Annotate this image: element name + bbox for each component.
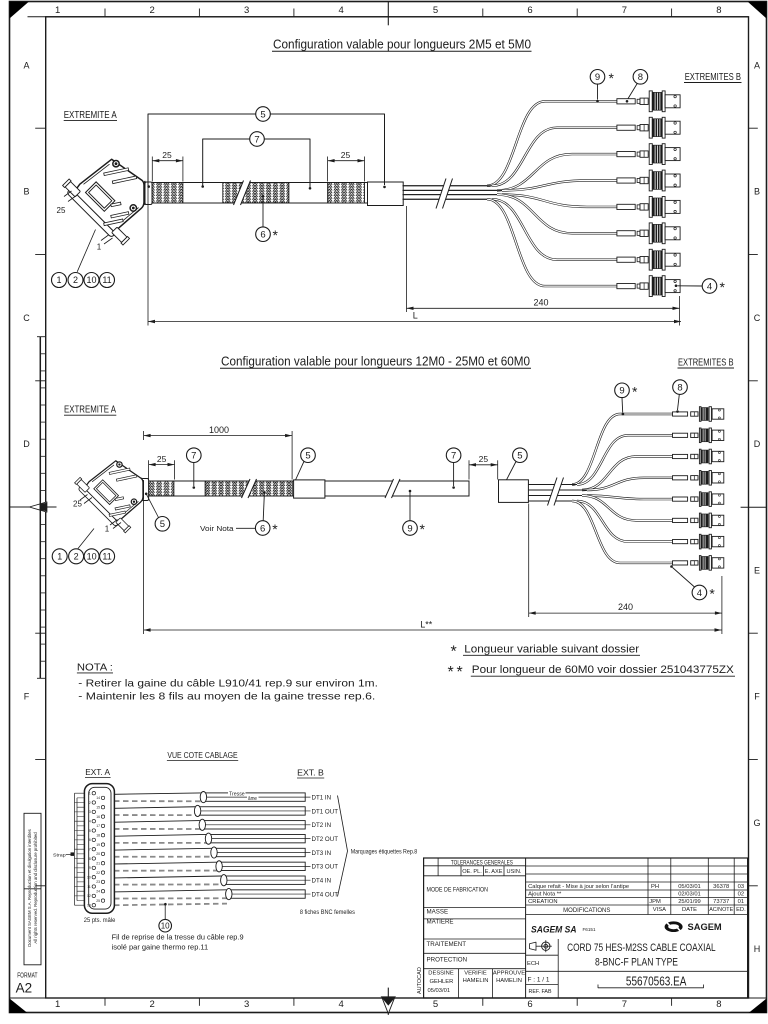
- svg-text:HAMELIN: HAMELIN: [463, 978, 489, 984]
- svg-text:4: 4: [338, 5, 343, 16]
- svg-text:01: 01: [738, 899, 744, 905]
- svg-text:MASSE: MASSE: [427, 909, 449, 916]
- svg-text:240: 240: [618, 602, 633, 612]
- svg-text:24: 24: [96, 890, 100, 894]
- svg-text:5: 5: [160, 519, 165, 530]
- left reference scale bar: [39, 337, 41, 679]
- svg-text:1: 1: [56, 275, 61, 285]
- svg-text:REF. FAB: REF. FAB: [529, 989, 552, 995]
- svg-text:TRAITEMENT: TRAITEMENT: [427, 941, 467, 948]
- svg-text:8: 8: [716, 999, 721, 1010]
- BNC connectors x8 (config1): [617, 91, 680, 112]
- svg-text:2: 2: [89, 801, 91, 805]
- svg-text:15: 15: [96, 806, 100, 810]
- svg-text:19: 19: [96, 843, 100, 847]
- svg-text:4: 4: [697, 588, 702, 599]
- leader to item circles (config1): [77, 230, 95, 272]
- svg-text:F6151: F6151: [583, 927, 596, 932]
- braid section 1 (config2): [149, 481, 174, 496]
- svg-text:1000: 1000: [209, 425, 229, 435]
- callout 10: [164, 905, 166, 919]
- svg-text:10: 10: [86, 275, 96, 285]
- svg-text:9: 9: [407, 523, 412, 534]
- braid section 3 (tresse 25mm right): [328, 183, 365, 204]
- svg-text:73737: 73737: [713, 899, 729, 905]
- svg-text:25: 25: [73, 500, 82, 509]
- gaine end divider (config2): [468, 481, 470, 496]
- svg-text:FORMAT: FORMAT: [17, 972, 38, 979]
- svg-text:8: 8: [638, 72, 643, 83]
- svg-text:9: 9: [619, 386, 624, 397]
- ferrule at connector (config2): [142, 479, 149, 501]
- wire bundle break (config2): [548, 478, 564, 506]
- dim 25 right (config1): [327, 157, 329, 182]
- svg-text:12: 12: [87, 894, 91, 898]
- ferrule at connector (config1): [145, 182, 152, 205]
- svg-text:Fil de reprise de la tresse du: Fil de reprise de la tresse du câble rep…: [112, 933, 244, 942]
- svg-text:D: D: [23, 439, 30, 449]
- svg-text:25: 25: [341, 150, 351, 160]
- svg-text:05/03/01: 05/03/01: [678, 884, 701, 890]
- svg-text:NOTA :: NOTA :: [77, 661, 113, 673]
- brace marquages etiquettes: [338, 796, 348, 897]
- svg-text:All rights reserved. Reproduct: All rights reserved. Reproduction and di…: [33, 832, 38, 944]
- callout 5 sleeve2 (config2): [513, 448, 528, 463]
- callout bracket item 5 (config1): [148, 114, 385, 187]
- svg-text:8: 8: [677, 383, 682, 394]
- svg-text:1: 1: [89, 792, 91, 796]
- ruler ticks bottom: [104, 998, 106, 1006]
- cable entry funnel (config2): [135, 478, 142, 501]
- corner triangle bottom-left: [10, 999, 28, 1014]
- dim 25 left (config2): [148, 460, 150, 479]
- svg-text:F : 1 / 1: F : 1 / 1: [528, 977, 551, 983]
- svg-text:10: 10: [87, 552, 97, 562]
- svg-text:EXTREMITES B: EXTREMITES B: [685, 72, 742, 83]
- svg-text:G: G: [753, 818, 760, 828]
- braid section 2 (config2): [205, 481, 292, 496]
- svg-text:25: 25: [96, 899, 100, 903]
- svg-text:1: 1: [105, 525, 110, 534]
- svg-text:DT2 OUT: DT2 OUT: [312, 836, 339, 843]
- svg-text:5: 5: [305, 451, 310, 462]
- svg-text:7: 7: [451, 451, 456, 462]
- callout 8 (config1): [633, 70, 648, 85]
- svg-text:AUTOCAD: AUTOCAD: [417, 967, 423, 994]
- svg-text:1: 1: [55, 999, 60, 1010]
- svg-text:18: 18: [96, 834, 100, 838]
- wire bundle break mark (config1): [436, 179, 453, 209]
- svg-text:7: 7: [254, 134, 259, 145]
- svg-text:2: 2: [150, 999, 155, 1010]
- svg-text:7: 7: [622, 5, 627, 16]
- dim L** (config2): [143, 480, 145, 634]
- svg-text:11: 11: [102, 552, 111, 562]
- svg-text:L**: L**: [420, 619, 433, 629]
- stamp and title cells: [557, 939, 559, 998]
- centering mark right: [741, 506, 767, 508]
- svg-text:- Retirer la gaine du câble L9: - Retirer la gaine du câble L910/41 rep.…: [78, 678, 378, 690]
- svg-text:10: 10: [161, 922, 170, 931]
- svg-text:6: 6: [527, 999, 532, 1010]
- svg-text:25: 25: [479, 454, 489, 464]
- corner triangle bottom-right: [749, 999, 767, 1014]
- callout 9 cable (config2): [409, 490, 412, 493]
- svg-text:E. AXE: E. AXE: [485, 869, 503, 875]
- svg-text:DT2 IN: DT2 IN: [312, 822, 332, 829]
- svg-text:*: *: [609, 70, 615, 86]
- callout 5 at ferrule (config2): [145, 493, 148, 496]
- svg-text:25: 25: [157, 454, 167, 464]
- svg-text:11: 11: [87, 885, 91, 889]
- svg-text:A: A: [23, 60, 29, 70]
- svg-text:DATE: DATE: [682, 907, 697, 913]
- callout bracket item 7 (config1): [203, 139, 310, 187]
- svg-text:A2: A2: [16, 980, 33, 995]
- item circles 1 2 10 11 (config1): [52, 273, 67, 288]
- title block frame: [424, 858, 748, 998]
- connector EXTREMITE A (config1): [63, 159, 144, 245]
- svg-text:VERIFIE: VERIFIE: [464, 971, 487, 977]
- svg-text:16: 16: [96, 815, 100, 819]
- svg-text:*: *: [457, 664, 463, 681]
- svg-text:*: *: [420, 521, 426, 537]
- svg-text:*: *: [273, 227, 279, 243]
- svg-text:OE. PL.: OE. PL.: [462, 869, 482, 875]
- svg-text:25: 25: [162, 150, 172, 160]
- corner triangle top-left: [10, 2, 30, 19]
- dim 240 (config1): [406, 206, 408, 312]
- coax wires fan-out (config2): [528, 484, 574, 486]
- svg-text:2: 2: [74, 552, 79, 562]
- svg-text:8 fiches BNC femelles: 8 fiches BNC femelles: [300, 909, 355, 916]
- svg-text:23: 23: [96, 880, 100, 884]
- svg-text:âme: âme: [248, 796, 257, 802]
- signature cells: [458, 969, 460, 998]
- svg-text:10: 10: [87, 876, 91, 880]
- dim 25 left (config1): [151, 157, 153, 182]
- svg-text:Pour longueur de 60M0 voir dos: Pour longueur de 60M0 voir dossier 25104…: [472, 664, 735, 676]
- callout 8 (config2): [673, 380, 688, 395]
- svg-text:02/03/01: 02/03/01: [678, 892, 701, 898]
- svg-text:USIN.: USIN.: [507, 869, 522, 875]
- svg-text:13: 13: [87, 904, 91, 908]
- svg-text:EXT. B: EXT. B: [297, 768, 324, 778]
- svg-text:03: 03: [738, 884, 744, 890]
- svg-text:3: 3: [89, 810, 91, 814]
- disclaimer box left: [24, 813, 41, 965]
- svg-text:*: *: [272, 521, 278, 537]
- svg-text:L: L: [413, 310, 418, 320]
- svg-text:- Maintenir les 8 fils au moye: - Maintenir les 8 fils au moyen de la ga…: [78, 691, 375, 703]
- callout 9 top (config2): [615, 383, 630, 398]
- svg-text:CORD 75 HES-M2SS CABLE COAXIAL: CORD 75 HES-M2SS CABLE COAXIAL: [567, 942, 716, 954]
- svg-text:DT3 OUT: DT3 OUT: [312, 864, 339, 871]
- svg-text:3: 3: [244, 999, 249, 1010]
- cable break (config2 left): [242, 479, 257, 498]
- svg-text:PH: PH: [651, 884, 659, 890]
- svg-text:9: 9: [89, 866, 91, 870]
- cable entry funnel (config1): [137, 181, 145, 204]
- svg-text:Strap: Strap: [53, 853, 66, 859]
- svg-text:isolé par gaine thermo rep.11: isolé par gaine thermo rep.11: [112, 942, 209, 951]
- svg-text:6: 6: [260, 523, 265, 534]
- svg-text:36378: 36378: [713, 884, 729, 890]
- svg-text:11: 11: [102, 275, 111, 285]
- svg-text:HAMELIN: HAMELIN: [496, 978, 522, 984]
- svg-text:8: 8: [716, 5, 721, 16]
- svg-text:2: 2: [73, 275, 78, 285]
- svg-text:*: *: [720, 279, 726, 295]
- svg-text:C: C: [23, 313, 30, 323]
- svg-text:1: 1: [55, 5, 60, 16]
- svg-text:AC/NOTE: AC/NOTE: [709, 907, 733, 913]
- cable run (config1): [152, 183, 368, 204]
- svg-text:25/01/99: 25/01/99: [678, 899, 701, 905]
- svg-text:1: 1: [57, 552, 62, 562]
- svg-text:EXT. A: EXT. A: [85, 767, 110, 777]
- svg-text:F: F: [754, 692, 760, 702]
- svg-text:5: 5: [89, 829, 91, 833]
- row ticks left/right: [35, 127, 46, 129]
- callout item 6 (config1): [262, 198, 264, 227]
- svg-text:2: 2: [150, 5, 155, 16]
- callout 4 (config2): [692, 585, 707, 600]
- svg-text:EXTREMITE A: EXTREMITE A: [64, 405, 116, 416]
- svg-text:Marquages étiquettes Rep.8: Marquages étiquettes Rep.8: [351, 849, 418, 856]
- svg-text:Document SAGEM S.A. Reproducti: Document SAGEM S.A. Reproduction et divu…: [27, 829, 32, 947]
- svg-text:3: 3: [244, 5, 249, 16]
- svg-text:Calque refait - Mise à jour se: Calque refait - Mise à jour selon l’anti…: [528, 884, 629, 890]
- corner triangle top-right: [748, 2, 767, 19]
- svg-text:14: 14: [96, 796, 100, 800]
- svg-text:6: 6: [89, 838, 91, 842]
- braid section 1 (rep.6 tresse 25mm): [152, 183, 183, 204]
- svg-text:B: B: [754, 187, 760, 197]
- svg-text:GEHLER: GEHLER: [430, 979, 454, 985]
- svg-text:*: *: [709, 586, 715, 602]
- item circles 1 2 10 11 (config2): [52, 549, 67, 564]
- svg-text:7: 7: [191, 451, 196, 462]
- svg-text:A: A: [754, 60, 760, 70]
- dim L (config1): [147, 187, 149, 326]
- svg-text:APPROUVE: APPROUVE: [493, 971, 525, 977]
- svg-text:20: 20: [96, 852, 100, 856]
- strap bus left of connector: [74, 793, 76, 905]
- svg-text:5: 5: [517, 451, 522, 462]
- callout 4 (config1): [702, 279, 717, 294]
- BNC connectors x8 (config2): [673, 407, 724, 422]
- svg-text:E: E: [754, 565, 760, 575]
- svg-text:22: 22: [96, 871, 100, 875]
- svg-text:Voir Nota: Voir Nota: [200, 526, 234, 533]
- svg-text:*: *: [451, 643, 457, 660]
- svg-text:ED.: ED.: [736, 907, 746, 913]
- svg-text:7: 7: [622, 999, 627, 1010]
- svg-text:Configuration valable pour lon: Configuration valable pour longueurs 2M5…: [273, 36, 531, 51]
- svg-text:4: 4: [89, 820, 91, 824]
- centering mark left: [10, 506, 57, 508]
- svg-text:25 pts. mâle: 25 pts. mâle: [84, 917, 116, 924]
- dim 25 right (config2): [468, 460, 470, 479]
- svg-text:MODIFICATIONS: MODIFICATIONS: [563, 908, 610, 914]
- svg-text:DT1 IN: DT1 IN: [312, 794, 332, 801]
- svg-text:21: 21: [96, 862, 100, 866]
- callout 5 sleeve1 (config2): [301, 448, 316, 463]
- sleeve 2 / splitting sleeve (config2): [499, 480, 529, 503]
- svg-text:1: 1: [97, 242, 102, 251]
- bottom ruler band line: [10, 997, 767, 999]
- svg-text:MODE DE FABRICATION: MODE DE FABRICATION: [427, 887, 489, 894]
- svg-text:SAGEM: SAGEM: [688, 922, 723, 932]
- svg-text:VISA: VISA: [653, 907, 666, 913]
- svg-text:Tresse: Tresse: [229, 791, 245, 797]
- callout 7 right (config2): [446, 448, 461, 463]
- callout 9 (config1): [590, 70, 605, 85]
- modifications table: [526, 865, 748, 867]
- bottom centering mark: [387, 988, 389, 1015]
- svg-text:D: D: [754, 439, 761, 449]
- svg-text:55670563.EA: 55670563.EA: [626, 974, 687, 988]
- dim 1000 (config2): [143, 431, 145, 440]
- svg-text:5: 5: [260, 109, 265, 120]
- projection symbol: [530, 942, 537, 950]
- svg-text:Ajout Nota **: Ajout Nota **: [528, 892, 562, 898]
- svg-text:H: H: [754, 944, 761, 954]
- cable run (config2): [149, 481, 469, 496]
- svg-text:8: 8: [89, 857, 91, 861]
- callout 6 (config2): [263, 491, 266, 494]
- svg-text:TOLERANCES GENERALES: TOLERANCES GENERALES: [451, 860, 513, 866]
- braid section 2 (cable L910/41): [223, 183, 289, 204]
- ruler ticks top: [104, 9, 106, 17]
- svg-text:05/03/01: 05/03/01: [428, 988, 451, 994]
- svg-text:DT4 OUT: DT4 OUT: [312, 891, 339, 898]
- tresse / ame labels on pigtail 1: [228, 790, 246, 797]
- svg-text:4: 4: [338, 999, 343, 1010]
- coax wires DB25 to pigtails: [103, 793, 201, 795]
- svg-text:5: 5: [433, 999, 438, 1010]
- svg-text:8-BNC-F PLAN TYPE: 8-BNC-F PLAN TYPE: [595, 957, 678, 969]
- svg-text:DT4 IN: DT4 IN: [312, 878, 332, 885]
- tube break (config2): [385, 479, 400, 498]
- svg-text:JPM: JPM: [649, 899, 661, 905]
- svg-text:5: 5: [433, 5, 438, 16]
- fil de reprise dashed (rep.9/10): [96, 904, 227, 906]
- svg-text:MATIERE: MATIERE: [427, 919, 454, 926]
- DB25 connector (vue cablage): [84, 784, 114, 914]
- BNC pigtails (vue cablage): [203, 793, 305, 801]
- svg-text:6: 6: [527, 5, 532, 16]
- svg-text:25: 25: [57, 206, 66, 215]
- callout 7 left (config2): [187, 448, 202, 463]
- svg-text:*: *: [632, 383, 638, 399]
- svg-text:9: 9: [595, 72, 600, 83]
- connector EXTREMITE A (config2): [75, 461, 143, 533]
- svg-text:CREATION: CREATION: [528, 899, 558, 905]
- splitting sleeve (config1): [368, 182, 404, 206]
- svg-text:02: 02: [738, 892, 744, 898]
- svg-text:7: 7: [89, 848, 91, 852]
- svg-text:VUE COTE CABLAGE: VUE COTE CABLAGE: [167, 750, 238, 760]
- sleeve 1 (config2): [294, 480, 325, 498]
- svg-text:PROTECTION: PROTECTION: [427, 956, 468, 963]
- dim 240 (config2): [528, 504, 530, 618]
- coax wires fan-out (config1): [403, 185, 490, 187]
- top ruler band line: [28, 16, 749, 18]
- svg-text:*: *: [448, 664, 454, 681]
- svg-text:DT1 OUT: DT1 OUT: [312, 808, 339, 815]
- svg-text:ECH: ECH: [527, 961, 539, 967]
- cable break mark (config1): [234, 181, 251, 206]
- leader to item circles (config2): [78, 529, 94, 549]
- svg-text:17: 17: [96, 824, 100, 828]
- svg-text:C: C: [754, 313, 761, 323]
- svg-text:EXTREMITE A: EXTREMITE A: [64, 110, 117, 121]
- svg-text:EXTREMITES B: EXTREMITES B: [678, 357, 734, 368]
- svg-text:F: F: [24, 692, 30, 702]
- svg-text:240: 240: [533, 297, 548, 307]
- svg-text:SAGEM SA: SAGEM SA: [531, 925, 577, 936]
- svg-text:DESSINE: DESSINE: [428, 971, 454, 977]
- svg-text:Configuration valable pour lon: Configuration valable pour longueurs 12M…: [221, 354, 530, 369]
- svg-text:B: B: [23, 187, 29, 197]
- svg-text:6: 6: [260, 230, 265, 241]
- svg-text:Longueur variable suivant doss: Longueur variable suivant dossier: [464, 643, 639, 655]
- SAGEM logo: [665, 921, 683, 932]
- svg-text:DT3 IN: DT3 IN: [312, 850, 332, 857]
- svg-text:4: 4: [707, 281, 712, 292]
